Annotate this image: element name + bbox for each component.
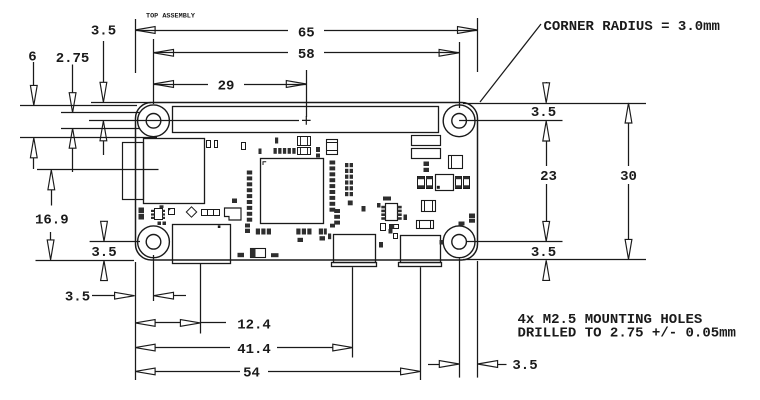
diode diamond symbol D1 xyxy=(186,207,196,217)
pad bar right of bottom-center component xyxy=(271,253,279,257)
large cap above SoC xyxy=(327,140,338,155)
dim 16.9 down arrow to board bottom xyxy=(50,232,52,240)
two small caps right of SD slot xyxy=(207,141,211,148)
svg-text:3.5: 3.5 xyxy=(91,245,116,261)
pads below SoC group 1 xyxy=(256,229,260,235)
tiny pad right of USB J11 xyxy=(440,240,444,245)
pad right of SOIC xyxy=(404,215,408,221)
second pad column right of SoC xyxy=(345,163,348,167)
board bottom edge extension line left xyxy=(36,260,135,262)
svg-text:29: 29 xyxy=(218,79,235,95)
cap bar left of J11 caps xyxy=(390,225,399,229)
dim 65 arrow right xyxy=(458,27,478,34)
bottom-right hole center extension line down xyxy=(459,259,461,378)
component with notched corner near SD xyxy=(225,208,242,220)
small component square with notch xyxy=(169,209,175,215)
svg-text:TOP ASSEMBLY: TOP ASSEMBLY xyxy=(146,12,196,20)
dim 3.5 bottom-left line and right-pointing arrow xyxy=(92,295,115,297)
micro USB power connector J11 body xyxy=(401,236,441,263)
svg-text:16.9: 16.9 xyxy=(35,213,69,229)
cap C near USB J11 upper xyxy=(422,201,436,212)
board top edge extension line left xyxy=(91,102,151,104)
pad bars above bottom-left hole xyxy=(245,224,250,228)
tiny pad bar below SoC xyxy=(298,238,304,242)
svg-text:58: 58 xyxy=(298,47,315,63)
svg-text:6: 6 xyxy=(28,49,36,65)
dim 3.5 bottom-left left-pointing arrow at hole center xyxy=(154,292,174,299)
SoC U1 outline xyxy=(261,159,324,224)
HDMI centerline extension down xyxy=(200,264,202,334)
dark pad near bottom-right hole xyxy=(459,222,465,226)
tiny pads below wide caps xyxy=(424,162,430,167)
dim 3.5 left-bottom label xyxy=(90,243,118,258)
svg-text:23: 23 xyxy=(540,169,557,185)
tiny pad between USB connectors xyxy=(389,229,393,234)
USB J11 centerline extension down xyxy=(420,267,422,380)
board top edge extension line right xyxy=(463,103,646,105)
dim 54 line right xyxy=(268,371,401,373)
dim 30 up arrow xyxy=(625,103,632,123)
SOIC IC pins xyxy=(381,206,385,209)
dim 3.5 left-bottom down arrow xyxy=(104,220,106,223)
stacked caps above SoC xyxy=(298,137,311,146)
regulator circuit caps right pair xyxy=(456,177,462,189)
micro USB connector J10 body xyxy=(334,235,376,263)
mounting hole top-left pad xyxy=(138,105,170,137)
svg-text:DRILLED TO 2.75 +/- 0.05mm: DRILLED TO 2.75 +/- 0.05mm xyxy=(518,326,736,342)
dim 12.4 arrow left xyxy=(135,320,155,327)
regulator IC body xyxy=(436,175,454,191)
SMD pad row left of SoC top xyxy=(275,138,278,144)
dim 2.75 up arrow xyxy=(69,128,76,148)
USB J10 centerline extension down xyxy=(352,267,354,357)
dim 58 arrow right xyxy=(439,49,459,56)
dim 65 extension line left xyxy=(135,19,137,73)
bottom-right hole centerline extension xyxy=(466,241,563,243)
tiny pad left of USB J10 xyxy=(379,242,383,248)
micro USB J10 shell lip xyxy=(332,263,377,267)
wide caps below header right end xyxy=(412,136,441,146)
corner radius leader line xyxy=(480,24,541,102)
dim 29 extension line at center mark xyxy=(306,70,308,117)
top-right hole centerline extension xyxy=(459,120,562,122)
SD card centerline xyxy=(37,169,159,171)
dim 3.5 bottom-right arrow at hole center xyxy=(428,364,439,366)
board horizontal centerline through left hole to center mark xyxy=(89,120,299,122)
dim 3.5 bottom-right arrow at board edge xyxy=(478,361,498,368)
tiny vertical cap between USB connectors xyxy=(381,224,386,231)
dim 16.9 up arrow at SD centerline xyxy=(48,170,55,190)
dim 3.5 bottom-right up arrow xyxy=(543,260,550,280)
dim 58 arrow left xyxy=(154,49,174,56)
bottom-left hole centerline extension xyxy=(90,241,140,243)
micro SD card slot xyxy=(144,139,205,204)
SOIC IC U4 body xyxy=(386,204,398,221)
dim 41.4 arrow left xyxy=(135,344,155,351)
dim 54 line xyxy=(155,371,240,373)
dim 12.4 arrow right at HDMI center xyxy=(180,320,200,327)
svg-text:30: 30 xyxy=(620,169,637,185)
dim 2.75 lower extension line xyxy=(61,128,140,130)
single pad left of SoC xyxy=(232,199,237,204)
dim 41.4 line right xyxy=(277,347,333,349)
dim 23 up arrow xyxy=(543,121,550,141)
mounting hole top-right pad xyxy=(443,105,475,137)
dim 58 line xyxy=(154,52,460,54)
PCB board outline (65x30 rounded rect) xyxy=(136,103,478,261)
dim 29 arrow right xyxy=(286,81,306,88)
dim 6 up arrow xyxy=(30,138,37,158)
bottom-left hole center extension line down xyxy=(153,255,155,301)
dim 65 line xyxy=(135,30,477,32)
dim 2.75 upper extension line xyxy=(61,112,140,114)
cap above SOIC xyxy=(383,197,391,201)
SoC right pad column xyxy=(330,161,336,165)
header top edge extension line xyxy=(20,105,137,107)
dim 23 down arrow xyxy=(546,184,548,221)
svg-text:3.5: 3.5 xyxy=(531,105,556,121)
svg-text:65: 65 xyxy=(298,26,315,42)
dim 12.4 tail line xyxy=(200,322,226,324)
board right edge extension line down xyxy=(477,261,479,378)
capacitor pair below SD at board edge xyxy=(139,208,145,214)
small cap C near header xyxy=(242,143,246,150)
dim 41.4 line xyxy=(155,347,230,349)
dim 58 extension line right xyxy=(459,42,461,108)
resistor array 3 elements xyxy=(202,210,220,216)
dim 58 extension line left xyxy=(153,39,155,104)
dim 6 down arrow xyxy=(33,62,35,85)
svg-text:3.5: 3.5 xyxy=(65,290,90,306)
dim 3.5 top-left up arrow at hole centerline xyxy=(100,121,107,141)
svg-text:3.5: 3.5 xyxy=(512,358,537,374)
tiny pads cluster above SoC right xyxy=(316,147,320,152)
dim 3.5 top-left shaft and down arrow to board top edge xyxy=(103,41,105,83)
mounting hole bottom-right pad xyxy=(443,226,475,258)
small IC U below SD with pins xyxy=(155,209,163,220)
svg-text:CORNER RADIUS = 3.0mm: CORNER RADIUS = 3.0mm xyxy=(544,19,720,35)
dim 12.4 line xyxy=(155,322,180,324)
dim 65 extension line right xyxy=(477,18,479,72)
svg-text:12.4: 12.4 xyxy=(237,317,271,333)
dim 3.5 top-right down arrow xyxy=(546,81,548,84)
svg-text:54: 54 xyxy=(243,366,260,382)
mini HDMI connector J7 xyxy=(173,225,231,264)
micro SD card protruding from left edge xyxy=(123,143,144,200)
micro USB J11 shell lip xyxy=(399,263,442,267)
dim 29 arrow left xyxy=(154,81,174,88)
board center mark + xyxy=(302,116,311,125)
regulator circuit caps left pair xyxy=(418,177,425,189)
SoC pin-1 corner mark xyxy=(263,162,266,165)
board bottom edge extension line right xyxy=(463,259,646,261)
mounting hole bottom-left drill xyxy=(146,235,161,250)
board left edge extension line down xyxy=(135,262,137,380)
tiny pad below header xyxy=(259,149,262,155)
svg-text:3.5: 3.5 xyxy=(91,24,116,40)
bottom-center component with dark cell xyxy=(251,249,266,258)
GPIO header J8 outline xyxy=(173,107,439,133)
svg-text:3.5: 3.5 xyxy=(531,245,556,261)
mounting hole top-right drill xyxy=(452,114,467,129)
tiny pad right of second column xyxy=(377,203,381,208)
dim 30 down arrow xyxy=(628,184,630,239)
pad bar left of bottom-center component xyxy=(238,253,245,257)
mounting hole top-left drill xyxy=(146,114,161,129)
dim 54 arrow left xyxy=(135,368,155,375)
dim 3.5 left-bottom up arrow below board bottom xyxy=(101,261,108,281)
pads below SoC group 2 xyxy=(296,229,300,235)
SoC left pad column xyxy=(247,171,252,175)
tiny square above USB J11 xyxy=(394,234,398,239)
cap C near USB J11 lower xyxy=(417,221,434,229)
dim 41.4 arrow right at USB J10 center xyxy=(333,344,353,351)
dim 2.75 down arrow xyxy=(72,65,74,93)
dim 65 arrow left xyxy=(135,27,155,34)
dark pad pair at right edge xyxy=(469,214,475,219)
svg-text:41.4: 41.4 xyxy=(237,342,271,358)
dim 54 arrow right at USB J11 center xyxy=(401,368,421,375)
mounting hole bottom-left pad xyxy=(138,226,170,258)
dim 6 bottom extension line xyxy=(20,137,157,139)
cap right of header end xyxy=(449,156,463,169)
pads below SoC group 3 xyxy=(319,229,323,235)
dim 29 line xyxy=(154,84,307,86)
mounting hole bottom-right drill xyxy=(452,235,467,250)
mini HDMI pin1 dot xyxy=(218,225,221,228)
